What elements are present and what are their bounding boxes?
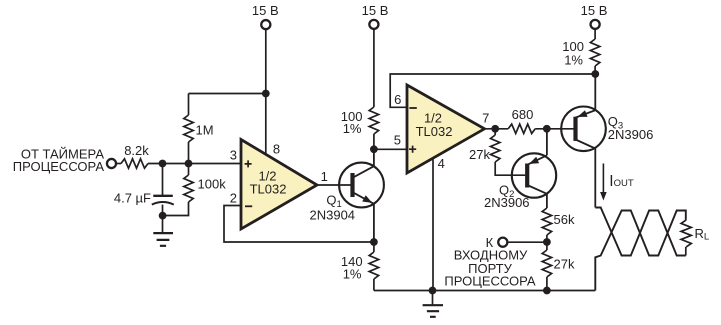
wire 56k to K node <box>546 235 548 242</box>
wire 680 to Q3 base <box>535 128 573 130</box>
transistor Q1 collector <box>353 149 374 178</box>
wire capacitor top lead <box>162 164 164 196</box>
transistor Q3 collector <box>576 140 596 208</box>
svg-text:1%: 1% <box>343 121 362 136</box>
wire op-amp U1 feedback pin 2 to Q1 emitter <box>224 206 374 243</box>
wire K terminal to 56k/27k node <box>508 241 547 243</box>
wire pin7 node to 27k <box>494 129 496 135</box>
svg-text:100k: 100k <box>198 177 227 192</box>
svg-text:1M: 1M <box>196 122 214 137</box>
svg-text:2N3906: 2N3906 <box>608 127 654 142</box>
svg-text:1: 1 <box>321 169 328 184</box>
svg-text:1%: 1% <box>343 267 362 282</box>
wire RL bottom lead <box>685 247 687 256</box>
op-amp U1 1/2 TL032 <box>241 140 317 230</box>
svg-text:2: 2 <box>230 190 237 205</box>
transistor Q3 emitter <box>576 74 596 118</box>
op-amp U1 plus input mark <box>245 160 252 167</box>
op-amp U2 1/2 TL032 <box>407 85 485 173</box>
resistor R 100 1% (supply 2) <box>369 107 378 134</box>
transistor Q2 circle <box>512 153 556 197</box>
resistor R 27k (a) <box>491 135 500 162</box>
transistor Q2 emitter <box>527 129 547 165</box>
wire Q1 emitter to 140 <box>373 242 375 252</box>
transistor Q3 circle <box>561 107 606 152</box>
resistor R 56k <box>542 208 551 235</box>
wire 1M top branch <box>189 93 266 95</box>
op-amp U1 minus input mark <box>245 205 252 207</box>
terminal K input port <box>498 238 507 247</box>
svg-text:ПРОЦЕССОРА: ПРОЦЕССОРА <box>444 273 536 288</box>
svg-text:7: 7 <box>482 110 489 125</box>
wire 27k to Q2 base <box>495 162 525 175</box>
transistor Q3 base bar <box>573 117 577 141</box>
wire ground stem <box>432 291 434 306</box>
terminal input from processor timer <box>107 159 116 168</box>
resistor R 27k (b) <box>542 250 551 277</box>
power +15V supply 3 terminal <box>591 20 600 29</box>
junction ground rail / pin 4 <box>429 287 437 295</box>
svg-text:6: 6 <box>394 92 401 107</box>
wire 100 1% to pin5 node <box>373 134 375 149</box>
node: I_OUT current arrow <box>602 164 604 193</box>
junction Q1 collector / op-amp U2 pin 5 <box>370 145 378 153</box>
wire capacitor bottom lead to ground <box>162 205 164 234</box>
svg-text:TL032: TL032 <box>416 124 453 139</box>
transistor Q1 emitter <box>353 192 374 242</box>
wire input terminal to 8.2k <box>116 163 121 165</box>
svg-text:8.2k: 8.2k <box>124 143 149 158</box>
wire op-amp U2 output <box>485 128 509 130</box>
wire twisted pair conductor B (return to ground rail) <box>595 211 686 291</box>
wire +15V supply 3 to 100 1% <box>594 29 596 39</box>
wire 1M upper lead <box>188 94 190 116</box>
svg-text:56k: 56k <box>554 212 575 227</box>
svg-text:27k: 27k <box>469 147 490 162</box>
transistor Q2 collector <box>527 185 547 208</box>
wire 27k to ground rail <box>546 277 548 291</box>
svg-text:15 В: 15 В <box>581 3 608 18</box>
wire op-amp U2 pin 4 to ground rail <box>432 159 434 290</box>
svg-text:680: 680 <box>512 107 534 122</box>
resistor R 680 <box>508 124 535 133</box>
transistor Q1 circle <box>339 163 384 208</box>
ground bottom center <box>423 305 443 317</box>
resistor R 8.2k <box>121 159 148 168</box>
junction input/capacitor node <box>159 160 167 168</box>
svg-text:8: 8 <box>273 142 280 157</box>
resistor R 100 1% (supply 3) <box>590 39 599 66</box>
transistor Q2 base bar <box>525 164 529 188</box>
wire +15V supply 2 to 100 1% <box>373 29 375 107</box>
svg-text:3: 3 <box>230 147 237 162</box>
junction input/100k node <box>185 160 193 168</box>
svg-text:15 В: 15 В <box>252 3 279 18</box>
svg-text:ПРОЦЕССОРА: ПРОЦЕССОРА <box>13 159 105 174</box>
wire twisted pair conductor A (from Q3 collector) <box>595 208 686 256</box>
transistor Q1 base bar <box>350 173 354 197</box>
op-amp U2 plus input mark <box>409 146 416 153</box>
wire 100 1% to Q3 emitter node <box>594 66 596 74</box>
wire bottom ground rail <box>374 290 595 292</box>
capacitor C 4.7uF <box>153 195 173 197</box>
resistor R 100k <box>184 175 193 202</box>
wire +15V supply 1 to op-amp U1 pin 8 <box>265 29 267 154</box>
junction Q3 emitter / feedback node <box>591 70 599 78</box>
svg-text:15 В: 15 В <box>362 3 389 18</box>
wire op-amp U2 pin 6 feedback <box>390 74 595 107</box>
svg-text:2N3906: 2N3906 <box>484 195 530 210</box>
wire 140 to ground rail <box>373 279 375 291</box>
wire input row to op-amp pin 3 <box>148 163 241 165</box>
svg-text:1%: 1% <box>564 52 583 67</box>
resistor R 1M <box>184 115 193 142</box>
junction 680 / Q2 emitter / Q3 base <box>543 125 551 133</box>
junction op-amp U2 output node pin 7 <box>491 125 499 133</box>
wire op-amp U2 pin 5 input <box>374 148 407 150</box>
wire op-amp U1 output to Q1 base <box>317 184 351 186</box>
wire 1M lower lead <box>188 142 190 164</box>
svg-text:TL032: TL032 <box>250 182 287 197</box>
ground under capacitor <box>153 233 173 246</box>
junction 56k / 27k / K-port node <box>543 238 551 246</box>
resistor RL <box>681 220 691 247</box>
op-amp U2 minus input mark <box>409 107 416 109</box>
wire 100k bottom lead <box>163 202 189 216</box>
junction capacitor/100k bottom node <box>159 212 167 220</box>
svg-text:27k: 27k <box>554 257 575 272</box>
wire 100k upper lead <box>188 164 190 176</box>
junction 27k / ground rail <box>543 287 551 295</box>
svg-text:2N3904: 2N3904 <box>310 208 356 223</box>
wire K node to 27k <box>546 242 548 250</box>
resistor R 140 1% <box>369 252 378 279</box>
svg-text:5: 5 <box>394 132 401 147</box>
svg-text:4: 4 <box>438 156 445 171</box>
svg-text:4.7 µF: 4.7 µF <box>114 190 151 205</box>
power +15V supply 2 terminal <box>369 20 378 29</box>
junction +15V/1M node <box>262 90 270 98</box>
power +15V supply 1 terminal <box>261 20 270 29</box>
junction Q1 emitter / feedback <box>370 238 378 246</box>
